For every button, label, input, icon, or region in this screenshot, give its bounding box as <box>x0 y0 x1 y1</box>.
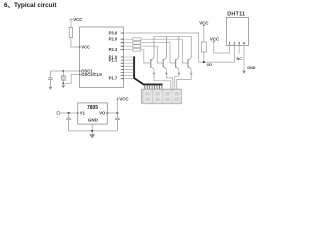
resistor R2 (P2.0) <box>133 38 141 41</box>
svg-text:V1: V1 <box>80 111 86 116</box>
capacitor C2 (input) <box>66 113 71 131</box>
resistor R3 (P2.1) <box>133 41 141 44</box>
node ground junction <box>91 130 93 132</box>
wire DHT11 pin4 to ground <box>243 46 245 71</box>
wire R6 to I/O node <box>203 52 205 62</box>
wire J1 to 7805 V1 <box>60 112 78 114</box>
svg-text:3: 3 <box>238 41 240 45</box>
capacitor C1 <box>48 71 53 87</box>
collector VCC rail <box>154 35 191 37</box>
svg-text:GND: GND <box>88 117 99 122</box>
svg-text:VCC: VCC <box>81 44 90 49</box>
svg-text:P1.1: P1.1 <box>109 58 118 63</box>
svg-text:I/O: I/O <box>207 62 212 67</box>
display DS1 (4-digit 7-segment) <box>141 89 181 104</box>
svg-text:NC: NC <box>237 57 243 61</box>
pin ticks on MCU edges <box>78 33 124 79</box>
transistor Q3 <box>176 36 179 69</box>
wire DHT11 pin3 NC stub <box>238 46 240 54</box>
DHT11 U2 box <box>227 18 249 46</box>
P1 bus (thick) <box>134 56 163 84</box>
wire OSC2 to MCU <box>63 74 79 83</box>
svg-text:7805: 7805 <box>87 105 98 111</box>
wire VCC to pull-up resistor <box>203 27 205 42</box>
svg-text:GND: GND <box>247 66 256 70</box>
ground (C1) <box>49 87 53 90</box>
capacitor C3 (output) <box>115 113 120 131</box>
emitter arrow Q3 <box>177 73 180 76</box>
node output junction <box>116 112 118 114</box>
digit 8 (1) <box>144 91 151 102</box>
svg-text:VCC: VCC <box>199 20 209 25</box>
transistor Q2 <box>163 36 166 69</box>
transistor Q1 <box>151 36 154 69</box>
transistor Q4 <box>188 36 191 69</box>
wire P2.3 <box>125 50 151 63</box>
node OSC1 junction <box>62 70 64 72</box>
svg-text:2: 2 <box>233 41 235 45</box>
resistor R6 (pull-up) <box>201 42 206 52</box>
P1 bus stub wires <box>125 57 133 79</box>
resistor R4 (P2.2) <box>133 45 141 48</box>
ground (main) <box>91 131 93 134</box>
node OSC2 junction <box>62 82 64 84</box>
wire Q3 emitter to display <box>175 70 179 90</box>
input terminal J1 <box>57 112 60 115</box>
svg-text:P3.0: P3.0 <box>109 30 118 35</box>
svg-text:VCC: VCC <box>210 36 220 41</box>
wire P2.0 <box>125 39 188 63</box>
wire I/O node to DHT11 pin2 <box>199 46 235 63</box>
wire P2.2 <box>125 46 163 63</box>
emitter arrow Q4 <box>190 73 193 76</box>
svg-text:6、Typical circuit: 6、Typical circuit <box>4 2 57 9</box>
bus ticks to display <box>145 85 162 89</box>
ground (crystal) <box>62 85 66 88</box>
node I/O junction <box>203 61 205 63</box>
wire Q4 emitter to display <box>177 70 191 90</box>
VCC symbol (top left) <box>70 18 73 21</box>
wire 7805 VO to VCC node <box>107 112 117 114</box>
wire Q2 emitter to display <box>166 70 172 90</box>
digit 8 (3) <box>164 91 171 102</box>
wire VCC to resistor R1 <box>70 21 72 27</box>
emitter arrow Q1 <box>153 73 156 76</box>
svg-text:P2.0: P2.0 <box>109 37 118 42</box>
svg-text:OSC2/CLK: OSC2/CLK <box>81 72 102 77</box>
svg-text:P2.3: P2.3 <box>109 47 118 52</box>
crystal circuit: OSC1 net wire <box>50 70 79 72</box>
svg-text:1: 1 <box>229 41 231 45</box>
svg-text:VCC: VCC <box>73 17 83 22</box>
crystal Y1 <box>61 71 66 85</box>
wire Q1 emitter to display <box>154 70 171 90</box>
emitter arrow Q2 <box>165 73 168 76</box>
svg-text:VO: VO <box>99 111 106 116</box>
digit 8 (2) <box>154 91 161 102</box>
wire VCC to DHT11 pin1 <box>214 43 230 53</box>
svg-text:P1.7: P1.7 <box>109 76 118 81</box>
resistor R1 (VCC feed) <box>69 28 72 38</box>
svg-text:VCC: VCC <box>119 96 129 101</box>
wire P3.0 to I/O node <box>125 33 199 62</box>
svg-text:+: + <box>57 116 59 120</box>
resistor R5 (P2.3) <box>133 48 141 51</box>
ground (DHT11 pin4) <box>242 71 246 74</box>
wire 7805 GND pin down <box>91 124 93 131</box>
wire R1 to MCU VCC pin <box>71 38 80 48</box>
digit 8 (4) <box>174 91 181 102</box>
pin ticks 7805 <box>77 112 109 114</box>
7805 U3 box <box>78 103 108 124</box>
MCU U1 box <box>80 27 124 88</box>
wire P2.1 <box>125 43 176 63</box>
node input junction <box>68 112 70 114</box>
svg-text:DHT11: DHT11 <box>227 12 245 18</box>
VCC symbol (5V out) <box>116 99 118 113</box>
ground rail wire <box>69 130 118 132</box>
